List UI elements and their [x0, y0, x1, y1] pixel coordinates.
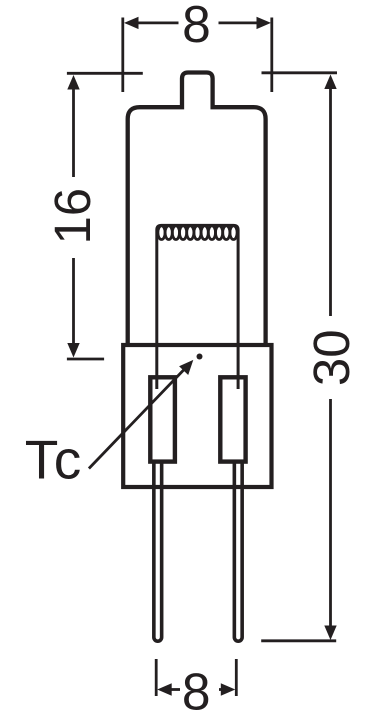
- base contact left: [150, 377, 175, 461]
- filament lead wires and top bar: [157, 225, 238, 389]
- svg-text:8: 8: [182, 663, 211, 717]
- extension line pip-top right horizontal: [262, 71, 338, 74]
- lamp glass envelope with exhaust pip: [128, 73, 266, 348]
- dimension line 16 upper segment: [72, 88, 75, 177]
- dimension line 30 upper segment: [329, 88, 332, 317]
- arrowhead top 8 right: [257, 17, 272, 29]
- extension line bottom 8 right vertical: [235, 659, 238, 696]
- dimension line top 8 right segment: [219, 21, 259, 24]
- dimension line bottom 8 right segment: [219, 688, 224, 691]
- pin right: [234, 461, 242, 641]
- Tc pointer arrow line: [89, 368, 186, 469]
- arrowhead 30 top: [324, 75, 336, 90]
- extension line 30 bottom horizontal: [261, 639, 336, 642]
- pin left: [154, 461, 162, 641]
- extension line top right vertical: [270, 18, 273, 93]
- base contact right: [220, 377, 245, 461]
- arrowhead 16 bottom: [67, 343, 79, 358]
- arrowhead 30 bottom: [324, 626, 336, 641]
- ceramic base: [123, 345, 271, 487]
- dimension line 16 lower segment: [72, 258, 75, 345]
- svg-text:30: 30: [303, 329, 360, 386]
- arrowhead bottom 8 right: [221, 683, 236, 695]
- svg-text:Tc: Tc: [25, 428, 83, 490]
- arrowhead 16 top: [67, 75, 79, 90]
- arrowhead bottom 8 left: [157, 683, 172, 695]
- dimension line 30 lower segment: [329, 399, 332, 627]
- dimension line top 8 left segment: [137, 21, 179, 24]
- extension line 16 bottom horizontal: [67, 358, 104, 361]
- dimension line bottom 8 left segment: [169, 688, 180, 691]
- filament coil C: [158, 226, 237, 240]
- svg-text:8: 8: [182, 0, 211, 53]
- extension line pip-top left horizontal: [67, 72, 143, 75]
- extension line bottom 8 left vertical: [155, 659, 158, 696]
- arrowhead Tc pointer: [179, 360, 193, 375]
- Tc reference dot: [197, 354, 203, 360]
- arrowhead top 8 left: [124, 17, 139, 29]
- extension line top left vertical: [121, 18, 124, 93]
- svg-text:16: 16: [44, 188, 101, 245]
